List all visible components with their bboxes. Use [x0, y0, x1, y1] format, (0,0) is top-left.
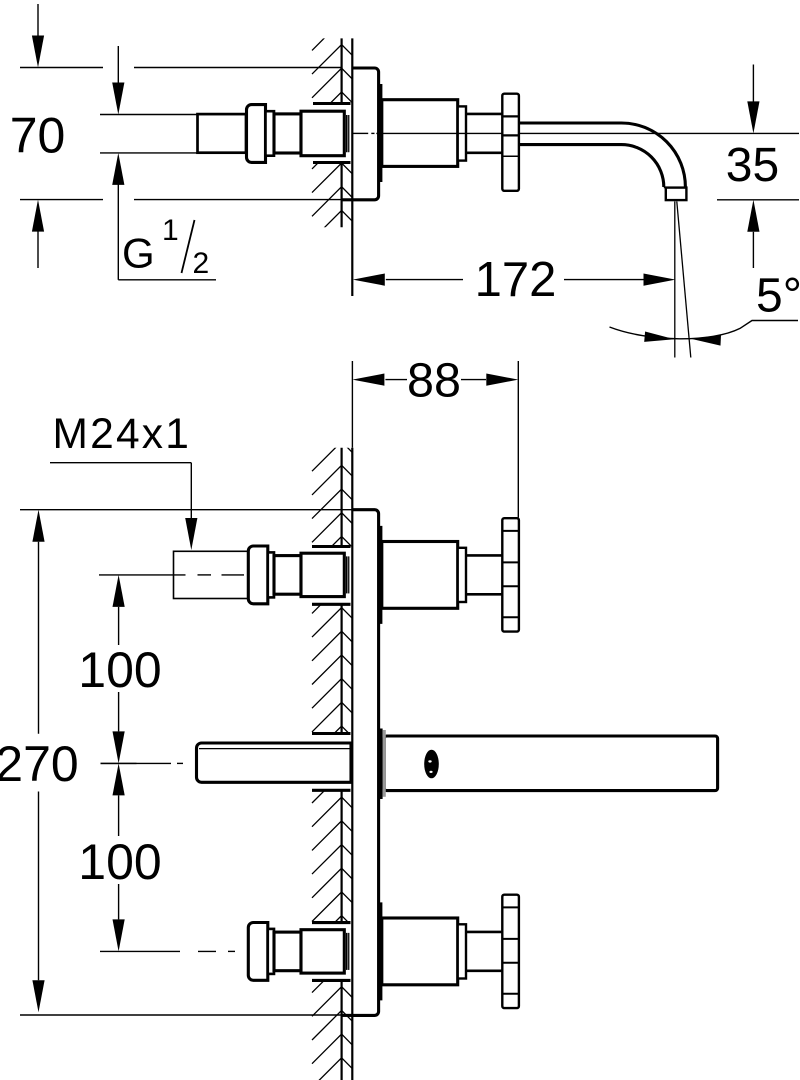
svg-text:1: 1	[162, 214, 179, 247]
svg-text:35: 35	[726, 139, 779, 192]
svg-text:100: 100	[78, 642, 161, 698]
svg-text:M24x1: M24x1	[53, 411, 192, 458]
svg-text:270: 270	[0, 736, 79, 792]
svg-text:70: 70	[10, 108, 66, 164]
svg-text:100: 100	[78, 834, 161, 890]
svg-text:88: 88	[407, 354, 461, 408]
svg-text:172: 172	[475, 253, 557, 307]
svg-text:G: G	[122, 230, 155, 277]
svg-text:2: 2	[193, 247, 210, 280]
svg-text:5°: 5°	[756, 270, 800, 323]
